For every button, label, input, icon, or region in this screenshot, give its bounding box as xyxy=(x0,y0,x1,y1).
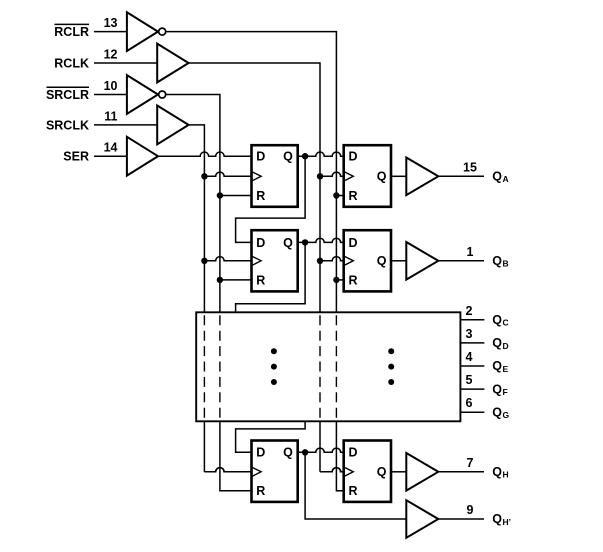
output buffer QH xyxy=(406,453,438,491)
svg-text:Q: Q xyxy=(377,254,387,268)
wire RCLR net: horizontal to vertical rail xyxy=(166,32,336,313)
wire SRCLK rail dashed through register box xyxy=(203,313,205,420)
svg-text:7: 7 xyxy=(467,456,474,470)
svg-text:Q: Q xyxy=(492,359,502,373)
output buffer QA xyxy=(406,158,438,196)
wire shift FF A Q to storage FF A D (hops over RCLK, RCLR) xyxy=(298,152,344,159)
wire SRCLR rail dashed through register box xyxy=(219,313,221,420)
wire shift FF B Q to storage FF B D (hops over RCLK, RCLR) xyxy=(298,238,344,245)
wire SRCLK input xyxy=(94,124,157,126)
buffer RCLK xyxy=(157,44,188,83)
svg-text:15: 15 xyxy=(463,160,477,174)
wire shift FF A reset from SRCLR rail xyxy=(217,192,252,198)
svg-text:SER: SER xyxy=(63,150,89,164)
svg-text:G: G xyxy=(503,410,510,420)
wire SRCLR net: horizontal to vertical rail xyxy=(166,95,220,313)
svg-text:H’: H’ xyxy=(503,517,512,527)
inverter SRCLR xyxy=(127,75,166,114)
wire output QD stub xyxy=(460,342,484,344)
svg-text:Q: Q xyxy=(492,405,502,419)
wire storage FF B Q to output buffer xyxy=(391,260,406,262)
shift flip-flop H (box) xyxy=(252,441,298,502)
svg-text:R: R xyxy=(349,273,358,287)
wire output QF stub xyxy=(460,388,484,390)
svg-text:11: 11 xyxy=(104,109,117,123)
wire storage FF B reset from RCLR rail xyxy=(333,277,344,283)
svg-text:13: 13 xyxy=(104,16,118,30)
wire SRCLR rail below box to shift FF H reset xyxy=(220,421,252,491)
wire output QA xyxy=(438,175,484,177)
wire shift FF H reset from SRCLR rail xyxy=(220,490,252,492)
svg-text:C: C xyxy=(503,318,509,328)
svg-text:RCLR: RCLR xyxy=(54,25,89,39)
pin 7 xyxy=(467,456,474,470)
wire RCLR input xyxy=(94,31,127,33)
wire storage FF H Q to output buffer xyxy=(391,471,406,473)
svg-text:D: D xyxy=(256,150,265,164)
node QA label xyxy=(492,170,508,185)
node QE label xyxy=(492,359,508,374)
svg-text:Q: Q xyxy=(492,465,502,479)
svg-text:12: 12 xyxy=(104,47,118,61)
storage flip-flop B (box) xyxy=(344,230,391,291)
storage flip-flop A (box) xyxy=(344,145,391,207)
svg-text:B: B xyxy=(503,259,509,269)
node QH label xyxy=(492,465,508,480)
svg-text:Q: Q xyxy=(377,170,387,184)
output buffer QH' xyxy=(406,500,438,538)
ellipsis dots left (shift stages C-G) xyxy=(271,348,277,385)
node QC label xyxy=(492,313,508,328)
pin 3 xyxy=(466,327,473,341)
register box (stages C-G) xyxy=(196,312,460,421)
svg-text:F: F xyxy=(503,387,508,397)
svg-text:E: E xyxy=(503,364,509,374)
wire SRCLR input xyxy=(94,94,127,96)
input label SRCLR xyxy=(46,87,89,102)
wire storage FF H reset from RCLR rail xyxy=(336,490,343,492)
node QH' label xyxy=(492,512,511,527)
wire storage FF A reset from RCLR rail xyxy=(333,192,344,198)
svg-text:R: R xyxy=(256,484,265,498)
wire shift FF H clock from SRCLK rail (junction dot, hop over SRCLR) xyxy=(204,468,251,472)
ellipsis dots right (storage stages C-G) xyxy=(388,348,394,385)
wire shift FF H Q down to QH' buffer xyxy=(305,452,406,519)
svg-text:6: 6 xyxy=(466,396,473,410)
junction shift FF H Q branch xyxy=(302,449,308,455)
input label SER xyxy=(63,150,89,164)
wire storage FF A clock from RCLK rail (hop over RCLR) xyxy=(317,172,344,179)
svg-text:Q: Q xyxy=(283,446,293,460)
pin 15 xyxy=(463,160,477,174)
wire output QG stub xyxy=(460,411,484,413)
wire register box (stage G Q) down to shift FF H D xyxy=(236,421,306,452)
svg-text:4: 4 xyxy=(466,350,473,364)
wire storage FF A Q to output buffer xyxy=(391,175,406,177)
pin 12 xyxy=(104,47,118,61)
pin 13 xyxy=(104,16,118,30)
wire shift FF A clock from SRCLK rail (junction dot, hop over SRCLR) xyxy=(201,172,251,179)
svg-text:Q: Q xyxy=(492,254,502,268)
svg-text:3: 3 xyxy=(466,327,473,341)
wire shift FF H Q to storage FF H D (hops over RCLK, RCLR) xyxy=(298,448,344,455)
shift flip-flop A (box) xyxy=(252,145,298,207)
svg-text:10: 10 xyxy=(104,79,118,93)
wire SER to shift FF A data (hops over SRCLK, SRCLR) xyxy=(158,152,251,156)
wire SRCLK rail below box to shift FF H clock (hop over SRCLR) xyxy=(204,421,251,472)
input label RCLR xyxy=(54,24,89,39)
svg-text:R: R xyxy=(256,273,265,287)
svg-text:R: R xyxy=(349,484,358,498)
pin 14 xyxy=(104,141,118,155)
pin 6 xyxy=(466,396,473,410)
node QD label xyxy=(492,336,508,351)
wire shift FF A Q down to shift FF B D xyxy=(236,156,306,242)
svg-text:D: D xyxy=(349,236,358,250)
svg-text:D: D xyxy=(256,446,265,460)
svg-text:5: 5 xyxy=(466,373,473,387)
node QG label xyxy=(492,405,509,420)
svg-text:H: H xyxy=(503,470,509,480)
wire RCLK rail dashed through register box xyxy=(319,313,321,420)
svg-text:RCLK: RCLK xyxy=(54,56,89,70)
svg-text:2: 2 xyxy=(466,304,473,318)
wire output QH xyxy=(438,471,484,473)
wire RCLK input xyxy=(94,62,157,64)
svg-text:R: R xyxy=(256,189,265,203)
svg-text:SRCLK: SRCLK xyxy=(46,118,89,132)
output buffer QB xyxy=(406,242,438,280)
svg-text:D: D xyxy=(256,236,265,250)
junction shift FF B Q branch xyxy=(302,239,308,245)
svg-text:R: R xyxy=(349,189,358,203)
pin 1 xyxy=(467,245,474,259)
svg-text:A: A xyxy=(503,174,509,184)
svg-text:Q: Q xyxy=(492,170,502,184)
wire shift FF B clock from SRCLK rail (junction dot, hop over SRCLR) xyxy=(201,257,251,264)
wire storage FF B clock from RCLK rail (hop over RCLR) xyxy=(317,257,344,264)
pin 5 xyxy=(466,373,473,387)
pin 9 xyxy=(467,503,474,517)
svg-text:14: 14 xyxy=(104,141,118,155)
input label SRCLK xyxy=(46,118,89,132)
wire RCLR rail below box to storage FF H reset xyxy=(336,421,343,491)
wire RCLR rail dashed through register box xyxy=(335,313,337,420)
shift flip-flop B (box) xyxy=(252,230,298,291)
svg-text:D: D xyxy=(503,341,509,351)
svg-text:D: D xyxy=(349,446,358,460)
svg-text:Q: Q xyxy=(492,512,502,526)
wire RCLK net: horizontal to vertical rail xyxy=(189,63,320,312)
svg-text:Q: Q xyxy=(492,382,502,396)
wire SER input xyxy=(94,155,127,157)
wire shift FF B reset from SRCLR rail xyxy=(217,277,252,283)
wire RCLK rail below box to storage FF H clock (hop over RCLR) xyxy=(320,421,344,472)
buffer SRCLK xyxy=(157,106,188,145)
storage flip-flop H (box) xyxy=(344,441,391,502)
pin 10 xyxy=(104,79,118,93)
inverter RCLR xyxy=(127,12,166,51)
svg-text:Q: Q xyxy=(492,336,502,350)
wire SRCLK net: horizontal to vertical rail xyxy=(189,125,205,312)
wire output QB xyxy=(438,260,484,262)
svg-text:Q: Q xyxy=(492,313,502,327)
svg-text:9: 9 xyxy=(467,503,474,517)
junction shift FF A Q branch xyxy=(302,153,308,159)
svg-text:D: D xyxy=(349,150,358,164)
svg-text:SRCLR: SRCLR xyxy=(46,88,89,102)
pin 2 xyxy=(466,304,473,318)
node QB label xyxy=(492,254,508,269)
wire storage FF H clock from RCLK rail (hop over RCLR) xyxy=(320,468,344,472)
pin 4 xyxy=(466,350,473,364)
input label RCLK xyxy=(54,56,89,70)
svg-text:Q: Q xyxy=(377,465,387,479)
wire output QC stub xyxy=(460,319,484,321)
buffer SER xyxy=(127,137,158,176)
pin 11 xyxy=(104,109,117,123)
wire output QE stub xyxy=(460,365,484,367)
svg-text:Q: Q xyxy=(283,150,293,164)
node QF label xyxy=(492,382,507,397)
wire shift FF B Q down into register box (stage C) xyxy=(236,242,306,312)
svg-text:Q: Q xyxy=(283,236,293,250)
wire output QH' xyxy=(438,518,484,520)
svg-text:1: 1 xyxy=(467,245,474,259)
